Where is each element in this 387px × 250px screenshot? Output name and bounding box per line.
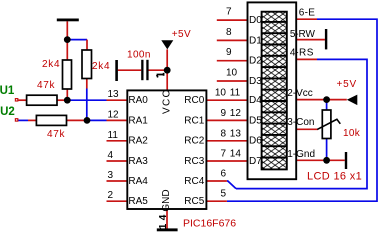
svg-text:RC4: RC4 [184,176,204,187]
svg-text:+5V: +5V [172,29,191,40]
svg-text:7: 7 [220,149,226,160]
svg-text:RA5: RA5 [128,196,148,207]
svg-text:RA4: RA4 [128,176,148,187]
svg-text:D7: D7 [249,156,262,167]
svg-text:2: 2 [108,190,114,201]
svg-text:GND: GND [161,189,172,211]
svg-text:8: 8 [220,128,226,139]
svg-text:D3: D3 [249,76,262,87]
svg-text:10: 10 [226,68,238,79]
svg-text:6-E: 6-E [299,7,315,18]
svg-text:-RW: -RW [295,29,315,40]
svg-text:D6: D6 [249,136,262,147]
svg-text:RA2: RA2 [128,136,148,147]
svg-text:4: 4 [108,150,114,161]
svg-text:+5V: +5V [337,79,357,90]
svg-text:-Gnd: -Gnd [293,149,315,160]
svg-text:D1: D1 [249,35,262,46]
svg-text:RC1: RC1 [184,115,204,126]
svg-text:RA1: RA1 [128,115,148,126]
svg-text:2k4: 2k4 [42,59,60,70]
svg-text:11: 11 [108,130,119,141]
svg-text:D5: D5 [249,115,262,126]
svg-text:8: 8 [226,27,232,38]
svg-text:10k: 10k [343,128,361,139]
svg-text:RC3: RC3 [184,156,204,167]
svg-text:RC5: RC5 [184,196,204,207]
svg-text:5: 5 [220,189,226,200]
svg-text:D2: D2 [249,56,262,67]
svg-text:U2: U2 [0,106,15,118]
svg-text:VCC: VCC [161,89,172,114]
svg-text:LCD 16 x1: LCD 16 x1 [307,171,362,183]
svg-text:PIC16F676: PIC16F676 [183,217,236,229]
svg-text:D4: D4 [249,95,262,106]
svg-text:47k: 47k [47,129,66,140]
svg-text:13: 13 [230,128,242,139]
svg-text:14: 14 [230,149,242,160]
svg-text:3: 3 [108,170,114,181]
svg-text:U1: U1 [0,85,15,97]
svg-text:14: 14 [158,211,169,229]
svg-text:2k4: 2k4 [92,61,110,72]
svg-text:-Con: -Con [293,117,315,128]
svg-text:RC0: RC0 [184,95,204,106]
svg-text:RA3: RA3 [128,156,148,167]
svg-text:-RS: -RS [295,47,314,58]
svg-text:D0: D0 [249,15,262,26]
svg-text:100n: 100n [127,50,151,61]
svg-text:-Vcc: -Vcc [293,88,313,99]
svg-text:12: 12 [108,109,120,120]
svg-text:RC2: RC2 [184,136,204,147]
svg-text:13: 13 [108,89,120,100]
svg-text:47k: 47k [37,80,56,91]
svg-text:10: 10 [215,88,227,99]
svg-text:12: 12 [230,108,242,119]
svg-text:7: 7 [226,7,232,18]
svg-text:9: 9 [226,47,232,58]
svg-text:11: 11 [230,88,241,99]
svg-text:9: 9 [220,108,226,119]
svg-text:6: 6 [220,169,226,180]
svg-text:RA0: RA0 [128,95,148,106]
